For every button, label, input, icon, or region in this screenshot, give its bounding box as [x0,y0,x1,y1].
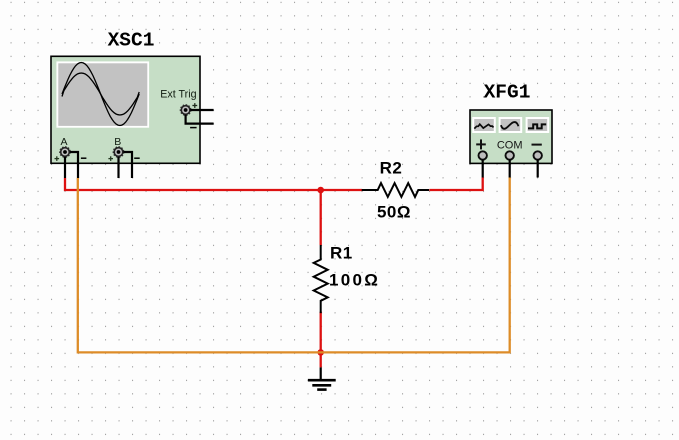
terminal Ext Trig pin [180,103,197,128]
svg-text:R1: R1 [330,244,353,263]
wire red net from scope A to node 1 [65,178,321,190]
svg-text:50Ω: 50Ω [377,203,411,222]
label Ext Trig [160,89,196,101]
wire stub XFG1 minus [537,160,539,178]
XFG1 triangle wave button [473,118,495,132]
XFG1 square wave button [527,118,549,132]
wire red net R2 right to XFG1 plus [429,178,482,191]
value label 100 ohm [329,271,380,290]
svg-text:Ext Trig: Ext Trig [160,89,196,101]
wire stub XFG1 COM [509,160,511,178]
wire stub Ext Trig minus [186,115,214,124]
svg-text:COM: COM [497,139,523,151]
function generator label XFG1 [484,82,531,104]
wire red net node 1 to R2 left [321,189,363,191]
svg-text:R2: R2 [380,159,403,178]
label R1 [330,244,353,263]
function generator XFG1 body [470,110,552,163]
wire orange net XFG1 COM to scope A minus [78,178,510,353]
wire stub B plus [117,157,119,178]
wire red net R1 bottom to ground node [320,312,322,368]
terminal XFG1 COM [506,151,514,159]
terminal XFG1 plus [479,151,487,159]
junction ground node dot [317,349,324,356]
label COM XFG1 [497,139,523,151]
resistor R1 [314,245,328,313]
wire stub Ext Trig plus [190,109,213,111]
label XSC1 [108,30,155,52]
wire stub XFG1 plus [482,160,484,178]
terminal A [55,147,87,161]
wire stub A plus [64,157,66,178]
label A [60,136,67,148]
label minus XFG1 [532,144,542,146]
oscilloscope XSC1 body [51,56,200,163]
label R2 [380,159,403,178]
oscilloscope XSC1 display screen [56,61,149,127]
wire stub B minus [123,152,132,178]
svg-text:XSC1: XSC1 [108,30,155,52]
wire stub A minus [70,152,78,178]
XFG1 sine wave button [500,118,522,132]
junction node 1 [317,187,324,194]
svg-text:100Ω: 100Ω [329,271,380,290]
svg-text:XFG1: XFG1 [484,82,531,104]
svg-text:A: A [60,136,67,148]
terminal B [108,147,139,161]
svg-text:B: B [114,136,121,148]
resistor R2 [362,183,429,197]
terminal XFG1 minus [534,151,542,159]
label B [114,136,121,148]
wire red net node 1 to R1 top [320,190,322,245]
label plus XFG1 [476,139,486,149]
value label 50 ohm [377,203,411,222]
ground [308,367,336,389]
